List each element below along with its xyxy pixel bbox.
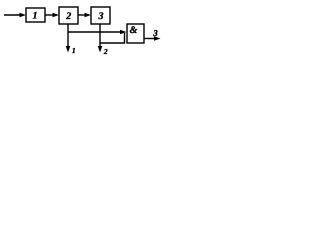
svg-text:1: 1 xyxy=(33,11,38,22)
arrowhead down output 2 xyxy=(98,46,103,53)
arrowhead down output 1 xyxy=(66,46,71,53)
wire block1 to block2 xyxy=(45,14,55,16)
block 2 xyxy=(59,7,78,24)
arrowhead into block 2 xyxy=(53,13,60,18)
block 1 xyxy=(26,8,45,22)
svg-text:3: 3 xyxy=(98,11,104,22)
wire vertical drop from block 3 xyxy=(99,24,101,48)
svg-text:2: 2 xyxy=(65,11,71,22)
svg-text:1: 1 xyxy=(72,46,76,55)
arrowhead into block 3 xyxy=(85,13,92,18)
arrowhead output 3 xyxy=(154,36,161,41)
arrowhead input xyxy=(20,13,27,18)
block 3 xyxy=(91,7,110,24)
wire horizontal from node below block2 to AND gate xyxy=(68,31,122,33)
wire block2 to block3 xyxy=(78,14,87,16)
svg-text:3: 3 xyxy=(152,28,158,38)
svg-text:2: 2 xyxy=(103,47,108,56)
arrowhead into AND gate xyxy=(120,30,127,35)
svg-text:&: & xyxy=(130,25,138,36)
wire vertical drop from block 2 xyxy=(67,24,69,48)
wire input arrow into block 1 xyxy=(4,14,21,16)
wire output from AND gate xyxy=(144,38,155,40)
wire lower horizontal from node below block3 xyxy=(100,33,125,43)
AND gate U1 box xyxy=(127,24,144,43)
